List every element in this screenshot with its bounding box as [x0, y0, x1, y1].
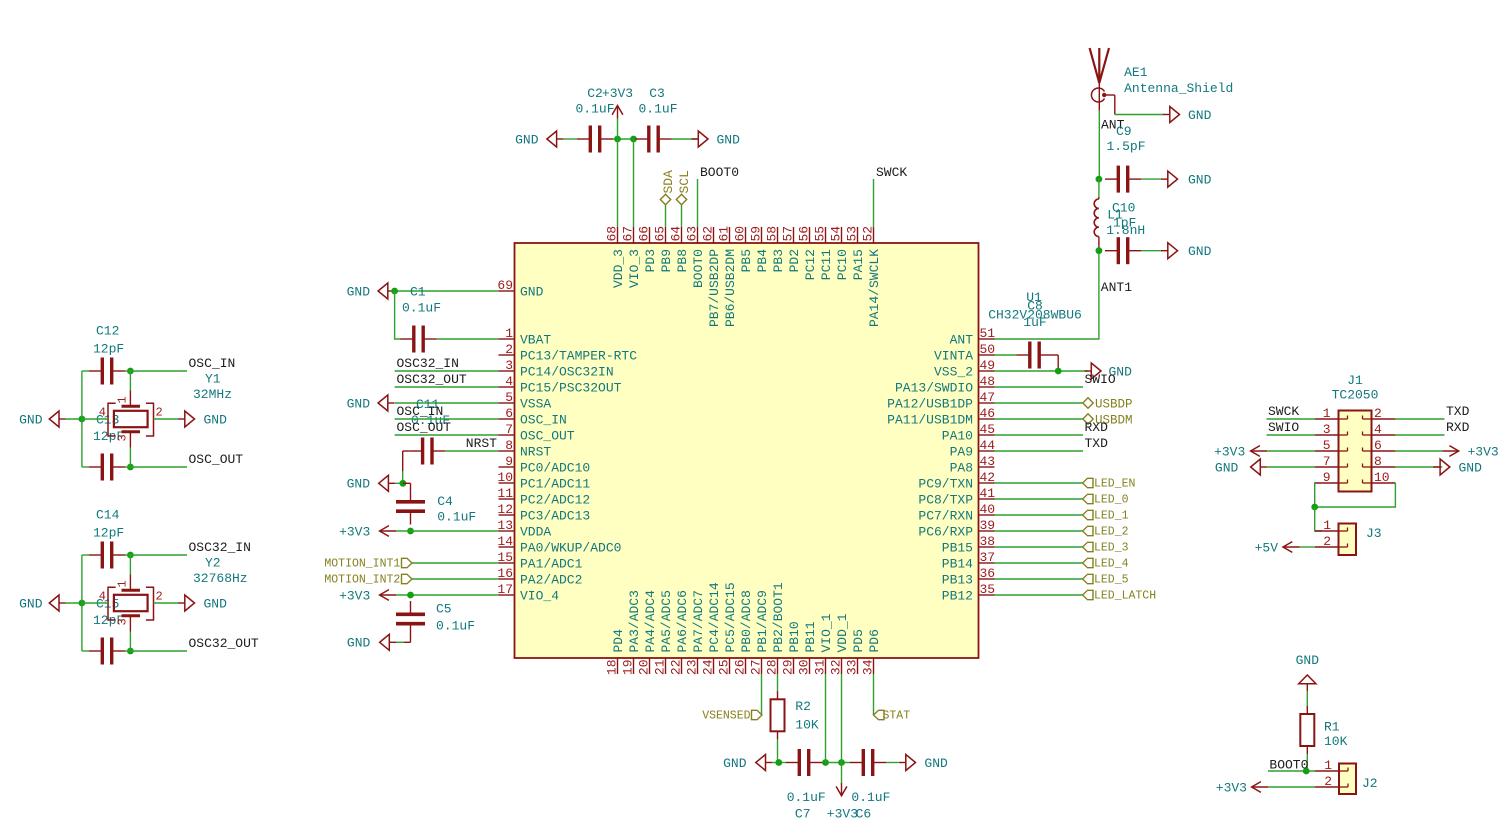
power +3V3 at J1 pin 5 [1214, 444, 1267, 459]
wire SWIO to J1 pin 3 [1267, 434, 1316, 436]
power +3V3 at pin 13 VDDA [339, 524, 396, 539]
wire [82, 370, 89, 372]
svg-text:BOOT0: BOOT0 [1269, 758, 1308, 773]
svg-text:39: 39 [980, 518, 996, 533]
capacitor C14 [89, 508, 125, 569]
ground GND antenna shield [1163, 107, 1212, 123]
svg-text:63: 63 [685, 226, 700, 242]
hierarchical label LED_4 [1083, 558, 1129, 571]
svg-text:PB0/ADC8: PB0/ADC8 [739, 590, 754, 652]
svg-text:LED_LATCH: LED_LATCH [1094, 590, 1156, 603]
junction GND/C4 node [400, 480, 407, 487]
wire TXD to pin 44 [995, 450, 1084, 452]
svg-text:24: 24 [701, 659, 716, 675]
U1 pin 37 PB14 [942, 550, 995, 572]
ground GND at pin 5 VSSA [347, 395, 395, 411]
svg-text:PB5: PB5 [739, 249, 754, 272]
junction C9 node [1096, 176, 1103, 183]
label OSC32_OUT left [397, 372, 467, 387]
U1 pin 58 PB3 [765, 226, 787, 273]
U1 pin 24 PC4/ADC14 [701, 582, 723, 675]
IC U1 CH32V208WBU6 body [515, 243, 979, 658]
svg-text:49: 49 [980, 358, 996, 373]
ground GND at C9 [1161, 171, 1212, 187]
connector J2 body [1339, 764, 1356, 795]
svg-text:46: 46 [980, 406, 996, 421]
junction Y1 case gnd [79, 416, 86, 423]
svg-text:LED_0: LED_0 [1094, 494, 1129, 507]
svg-text:+3V3: +3V3 [339, 588, 370, 603]
svg-text:GND: GND [515, 132, 539, 147]
svg-text:6: 6 [505, 406, 513, 421]
svg-text:3: 3 [116, 618, 130, 625]
svg-text:LED_2: LED_2 [1094, 526, 1129, 539]
svg-text:SDA: SDA [661, 170, 676, 194]
svg-text:PB1/ADC9: PB1/ADC9 [755, 590, 770, 652]
wire C11 down to GND node [403, 451, 410, 483]
svg-text:GND: GND [717, 132, 741, 147]
junction Y1 pin1 node [127, 368, 134, 375]
wire SWCK to pin 52 [873, 179, 875, 227]
capacitor C2 [575, 86, 614, 153]
svg-text:17: 17 [497, 582, 513, 597]
J1 pin 9 [1315, 470, 1348, 485]
J3 reference [1366, 526, 1382, 541]
wire C1 to pin 1 VBAT [437, 338, 499, 340]
svg-text:9: 9 [1323, 470, 1331, 485]
svg-text:36: 36 [980, 566, 996, 581]
junction Y2 case gnd [79, 600, 86, 607]
hierarchical label VSENSED [702, 710, 762, 723]
U1 pin 21 PA5/ADC5 [653, 590, 675, 675]
svg-text:GND: GND [1188, 244, 1212, 259]
U1 pin 57 PD2 [781, 226, 803, 273]
U1 pin 29 PB10 [781, 621, 803, 675]
wire +3V3 to J1 pin 5 [1267, 450, 1315, 452]
svg-text:C5: C5 [436, 602, 452, 617]
svg-text:43: 43 [980, 454, 996, 469]
U1 pin 6 OSC_IN [499, 406, 567, 428]
svg-text:3: 3 [505, 358, 513, 373]
ground GND above C4 [347, 475, 396, 491]
svg-text:62: 62 [701, 226, 716, 242]
svg-text:PB3: PB3 [771, 249, 786, 272]
wire C5 to GND [396, 637, 411, 642]
capacitor C5 [396, 601, 475, 637]
wire +3V3 to pin 13 [396, 530, 498, 532]
svg-text:C10: C10 [1112, 201, 1135, 216]
U1 pin 17 VIO_4 [497, 582, 559, 604]
svg-text:PC9/TXN: PC9/TXN [918, 477, 973, 492]
svg-text:VDD_3: VDD_3 [611, 249, 626, 288]
U1 pin 34 PD6 [861, 629, 883, 675]
U1 pin 25 PC5/ADC15 [717, 582, 739, 675]
J3 pin 1 [1315, 518, 1348, 533]
svg-text:VDD_1: VDD_1 [835, 613, 850, 652]
svg-text:38: 38 [980, 534, 996, 549]
wire LED_5 to pin 36 [995, 578, 1083, 580]
svg-text:0.1uF: 0.1uF [851, 790, 890, 805]
svg-text:PA9: PA9 [950, 445, 973, 460]
U1 pin 4 PC15/PSC32OUT [499, 374, 622, 396]
U1 pin 26 PB0/ADC8 [733, 590, 755, 675]
wire shield to GND [1115, 114, 1164, 116]
svg-text:PB10: PB10 [787, 621, 802, 652]
svg-text:4: 4 [505, 374, 513, 389]
wire LED_2 to pin 39 [995, 530, 1083, 532]
svg-text:1: 1 [116, 580, 130, 587]
U1 pin 46 PA11/USB1DM [887, 406, 995, 428]
svg-text:5: 5 [505, 390, 513, 405]
wire BOOT0 to J2 pin 1 [1268, 770, 1315, 772]
svg-text:67: 67 [621, 226, 636, 242]
svg-text:16: 16 [497, 566, 513, 581]
svg-text:47: 47 [980, 390, 996, 405]
J2 pin 1 [1315, 758, 1348, 773]
ground GND at pin 49 [1085, 363, 1133, 379]
wire left rail Y1 [81, 371, 83, 467]
wire MOTION_INT2 to pin 16 [412, 578, 499, 580]
svg-text:31: 31 [813, 659, 828, 675]
svg-text:VSSA: VSSA [520, 397, 551, 412]
svg-text:59: 59 [749, 226, 764, 242]
hierarchical label STAT [874, 710, 911, 723]
svg-text:2: 2 [1374, 406, 1382, 421]
svg-text:PC11: PC11 [819, 249, 834, 280]
svg-text:R1: R1 [1324, 720, 1340, 735]
wire [1141, 178, 1161, 180]
svg-text:ANT1: ANT1 [1101, 280, 1132, 295]
svg-text:PD4: PD4 [611, 629, 626, 653]
U1 pin 66 PD3 [637, 226, 659, 273]
svg-text:PA12/USB1DP: PA12/USB1DP [887, 397, 973, 412]
svg-text:GND: GND [924, 756, 948, 771]
svg-text:2: 2 [156, 406, 163, 420]
svg-text:GND: GND [1215, 460, 1239, 475]
inductor L1 [1094, 197, 1099, 251]
svg-text:61: 61 [717, 226, 732, 242]
wire [82, 554, 89, 556]
svg-text:12: 12 [497, 502, 513, 517]
label SWCK top [876, 165, 907, 180]
svg-text:RXD: RXD [1085, 420, 1109, 435]
svg-text:C6: C6 [856, 807, 872, 822]
svg-text:NRST: NRST [466, 436, 497, 451]
U1 pin 9 PC0/ADC10 [499, 454, 591, 476]
wire GND to R1 [1306, 691, 1308, 706]
J1 pin 1 [1315, 406, 1348, 421]
J1 ref and value [1332, 373, 1379, 402]
svg-text:PB13: PB13 [942, 573, 973, 588]
svg-text:TXD: TXD [1446, 404, 1470, 419]
wire R2 to GND rail [777, 739, 779, 763]
wire C11 to pin 8 NRST [445, 450, 498, 452]
svg-text:4: 4 [1374, 422, 1382, 437]
capacitor C8 [1017, 299, 1053, 369]
ground GND right of C6 [899, 755, 948, 771]
svg-text:10: 10 [497, 470, 513, 485]
svg-text:PC14/OSC32IN: PC14/OSC32IN [520, 365, 614, 380]
svg-text:PA8: PA8 [950, 461, 973, 476]
ground GND at C10 [1161, 243, 1212, 259]
J1 pin 10 [1363, 470, 1396, 485]
ground GND at J1 pin 7 [1215, 459, 1267, 475]
capacitor C15 [89, 596, 125, 664]
label OSC32_IN left [397, 356, 459, 371]
U1 pin 54 PC10 [829, 226, 851, 281]
svg-text:48: 48 [980, 374, 996, 389]
wire OSC32_IN [125, 554, 187, 556]
wire down to C1 [395, 291, 401, 339]
wire OSC_OUT to pin 7 [395, 434, 499, 436]
hierarchical label LED_0 [1083, 494, 1129, 507]
svg-text:Y1: Y1 [205, 371, 221, 386]
label OSC_IN [189, 356, 236, 371]
svg-text:PC5/ADC15: PC5/ADC15 [723, 582, 738, 652]
svg-text:35: 35 [980, 582, 996, 597]
label BOOT0 top [700, 165, 739, 180]
wire +3V3 from J1 pin 6 [1395, 450, 1442, 452]
svg-text:PC2/ADC12: PC2/ADC12 [520, 493, 590, 508]
label SWIO right [1085, 372, 1116, 387]
ground GND right of Y1 [178, 411, 227, 427]
wire pin 49 to GND [995, 370, 1089, 372]
power +3V3 at J2 pin 2 [1216, 780, 1268, 795]
svg-text:GND: GND [347, 636, 371, 651]
label BOOT0 at J2 [1269, 758, 1308, 773]
wire GND to J1 pin 7 [1267, 466, 1315, 468]
capacitor C1 [401, 284, 442, 352]
svg-text:VIO_4: VIO_4 [520, 589, 559, 604]
svg-text:PB8: PB8 [675, 249, 690, 272]
svg-text:+3V3: +3V3 [1468, 444, 1499, 459]
svg-text:OSC32_OUT: OSC32_OUT [397, 372, 467, 387]
svg-text:+3V3: +3V3 [1214, 444, 1245, 459]
svg-text:7: 7 [1323, 454, 1331, 469]
svg-text:VSENSED: VSENSED [702, 710, 750, 723]
hierarchical label LED_2 [1083, 526, 1129, 539]
junction GND/C1 node [391, 288, 398, 295]
svg-text:OSC32_IN: OSC32_IN [397, 356, 459, 371]
svg-text:PB14: PB14 [942, 557, 973, 572]
capacitor C9 [1105, 124, 1146, 193]
label TXD right [1085, 436, 1109, 451]
junction VDD_1 node [838, 759, 845, 766]
svg-text:GND: GND [1459, 460, 1483, 475]
junction Y1 pin3 node [127, 464, 134, 471]
U1 pin 67 VIO_3 [621, 226, 643, 288]
U1 pin 27 PB1/ADC9 [749, 590, 771, 675]
U1 pin 2 PC13/TAMPER-RTC [499, 342, 638, 364]
wire ANT1 net to pin 51 [995, 254, 1099, 339]
svg-text:PC13/TAMPER-RTC: PC13/TAMPER-RTC [520, 349, 637, 364]
hierarchical label LED_1 [1083, 510, 1129, 523]
wire LED_3 to pin 38 [995, 546, 1083, 548]
ground GND left of C7 [723, 755, 772, 771]
label NRST [466, 436, 497, 451]
svg-text:J2: J2 [1362, 776, 1378, 791]
wire OSC32_OUT [125, 650, 187, 652]
svg-text:41: 41 [980, 486, 996, 501]
svg-text:0.1uF: 0.1uF [787, 790, 826, 805]
U1 pin 40 PC7/RXN [918, 502, 995, 524]
J1 pin 2 [1363, 406, 1396, 421]
svg-text:66: 66 [637, 226, 652, 242]
svg-text:1: 1 [116, 396, 130, 403]
svg-text:PA15: PA15 [851, 249, 866, 280]
svg-text:0.1uF: 0.1uF [402, 301, 441, 316]
svg-text:28: 28 [765, 660, 780, 676]
svg-text:PC1/ADC11: PC1/ADC11 [520, 477, 590, 492]
svg-text:C9: C9 [1116, 124, 1132, 139]
hierarchical label LED_5 [1083, 574, 1129, 587]
svg-text:25: 25 [717, 660, 732, 676]
capacitor C3 [636, 86, 678, 153]
U1 pin 8 NRST [499, 438, 552, 460]
svg-text:C8: C8 [1027, 299, 1043, 314]
U1 pin 64 PB8 [669, 226, 691, 273]
svg-text:VIO_1: VIO_1 [819, 613, 834, 652]
svg-text:SWCK: SWCK [1268, 404, 1299, 419]
U1 pin 60 PB5 [733, 226, 755, 273]
U1 pin 45 PA10 [942, 422, 995, 444]
ground GND at J1 pin 8 [1433, 459, 1482, 475]
junction VIO_1 node [822, 759, 829, 766]
junction Y2 pin3 node [127, 648, 134, 655]
svg-text:40: 40 [980, 502, 996, 517]
svg-text:OSC_IN: OSC_IN [397, 404, 444, 419]
svg-text:PB12: PB12 [942, 589, 973, 604]
connector J3 body [1339, 524, 1357, 556]
svg-text:PC15/PSC32OUT: PC15/PSC32OUT [520, 381, 622, 396]
U1 pin 48 PA13/SWDIO [895, 374, 995, 396]
label TXD at J1 [1446, 404, 1470, 419]
svg-text:GND: GND [1188, 172, 1212, 187]
svg-text:1uF: 1uF [1023, 315, 1046, 330]
U1 pin 14 PA0/WKUP/ADC0 [497, 534, 621, 556]
wire to U1 pin 67 [633, 139, 635, 227]
svg-text:AE1: AE1 [1124, 65, 1148, 80]
U1 pin 12 PC3/ADC13 [497, 502, 590, 524]
svg-text:68: 68 [605, 226, 620, 242]
U1 pin 39 PC6/RXP [918, 518, 995, 540]
U1 pin 5 VSSA [499, 390, 552, 412]
svg-text:3: 3 [116, 434, 130, 441]
U1 pin 56 PC12 [797, 226, 819, 280]
svg-text:SWCK: SWCK [876, 165, 907, 180]
svg-text:BOOT0: BOOT0 [700, 165, 739, 180]
wire to +3V3 down arrow [841, 763, 843, 783]
svg-text:64: 64 [669, 226, 684, 242]
wire GND to Y1 case [66, 418, 82, 420]
resistor R1 [1300, 706, 1347, 754]
svg-text:PD3: PD3 [643, 249, 658, 272]
label ANT [1101, 117, 1125, 132]
wire SCL to pin 64 [681, 205, 683, 227]
svg-text:56: 56 [797, 226, 812, 242]
U1 pin 62 PB7/USB2DP [701, 226, 723, 327]
svg-text:15: 15 [497, 550, 513, 565]
wire GND to C4 [395, 482, 403, 484]
U1 pin 1 VBAT [499, 326, 552, 348]
svg-text:PA7/ADC7: PA7/ADC7 [691, 590, 706, 652]
label SWCK at J1 [1268, 404, 1299, 419]
svg-text:LED_5: LED_5 [1094, 574, 1129, 587]
U1 pin 65 PB9 [653, 226, 675, 273]
capacitor C10 [1105, 237, 1141, 264]
AE1 ref and value [1124, 65, 1233, 96]
svg-text:RXD: RXD [1446, 420, 1470, 435]
svg-text:LED_3: LED_3 [1094, 542, 1129, 555]
U1 pin 52 PA14/SWCLK [861, 226, 883, 327]
wire OSC_IN to pin 6 [395, 418, 499, 420]
connector J1 body [1339, 411, 1372, 492]
svg-text:MOTION_INT2: MOTION_INT2 [324, 574, 400, 587]
label RXD at J1 [1446, 420, 1470, 435]
junction C10 node [1096, 247, 1103, 254]
J1 pin 6 [1363, 438, 1396, 453]
U1 pin 47 PA12/USB1DP [887, 390, 995, 412]
wire [822, 762, 850, 764]
svg-text:32768Hz: 32768Hz [193, 571, 248, 586]
svg-text:C14: C14 [96, 508, 120, 523]
U1 reference designator [1026, 290, 1042, 305]
svg-text:Antenna_Shield: Antenna_Shield [1124, 81, 1233, 96]
svg-text:65: 65 [653, 226, 668, 242]
U1 pin 13 VDDA [497, 518, 551, 540]
svg-text:PA13/SWDIO: PA13/SWDIO [895, 381, 973, 396]
svg-text:10K: 10K [1324, 734, 1348, 749]
svg-text:1: 1 [1324, 758, 1332, 773]
svg-text:PA14/SWCLK: PA14/SWCLK [867, 249, 882, 327]
capacitor C12 [89, 324, 125, 385]
wire LED_LATCH to pin 35 [995, 594, 1083, 596]
svg-text:PA1/ADC1: PA1/ADC1 [520, 557, 583, 572]
antenna AE1 symbol [1090, 48, 1115, 115]
U1 pin 44 PA9 [950, 438, 996, 460]
svg-text:2: 2 [1324, 774, 1332, 789]
svg-text:OSC_IN: OSC_IN [189, 356, 236, 371]
wire LED_1 to pin 40 [995, 514, 1083, 516]
svg-text:LED_4: LED_4 [1094, 558, 1129, 571]
svg-text:PC4/ADC14: PC4/ADC14 [707, 582, 722, 652]
wire pin 28 to R2 [777, 674, 779, 692]
svg-text:19: 19 [621, 660, 636, 676]
svg-text:2: 2 [156, 590, 163, 604]
svg-text:6: 6 [1374, 438, 1382, 453]
ground GND at C3 right [692, 131, 741, 147]
svg-text:OSC_IN: OSC_IN [520, 413, 567, 428]
svg-text:GND: GND [1188, 108, 1212, 123]
U1 pin 15 PA1/ADC1 [497, 550, 582, 572]
svg-text:GND: GND [347, 284, 371, 299]
svg-text:C7: C7 [795, 807, 811, 822]
svg-text:53: 53 [845, 226, 860, 242]
wire Y2 pin2 to GND [154, 602, 179, 604]
wire left rail Y2 [81, 555, 83, 651]
svg-text:VDDA: VDDA [520, 525, 551, 540]
U1 pin 69 GND [497, 278, 543, 300]
power +3V3 below C6 [827, 783, 858, 822]
svg-text:C12: C12 [96, 324, 119, 339]
svg-text:30: 30 [797, 660, 812, 676]
hierarchical label LED_LATCH [1083, 590, 1157, 603]
svg-text:52: 52 [861, 226, 876, 242]
wire J1 pin 9 down [1314, 483, 1316, 507]
svg-text:PC10: PC10 [835, 249, 850, 280]
svg-text:PC6/RXP: PC6/RXP [918, 525, 973, 540]
svg-text:STAT: STAT [883, 710, 911, 723]
